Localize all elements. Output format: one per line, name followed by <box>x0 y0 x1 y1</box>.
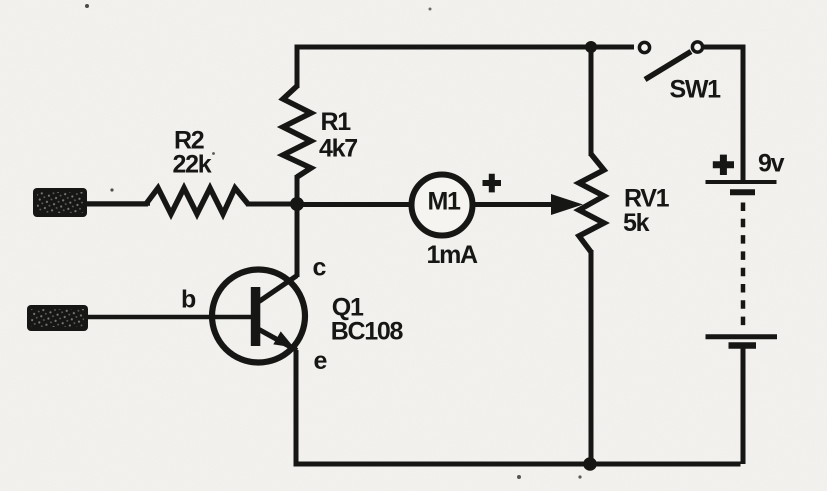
transistor Q1 emitter stroke <box>259 330 297 351</box>
svg-text:M1: M1 <box>428 188 462 216</box>
speck <box>212 152 215 155</box>
wire RV1 bottom lead <box>589 250 594 464</box>
transistor Q1 collector stroke <box>259 276 297 302</box>
svg-text:5k: 5k <box>623 209 650 237</box>
svg-text:R1: R1 <box>321 108 352 136</box>
transistor Q1 emitter arrowhead <box>273 331 294 347</box>
svg-text:9v: 9v <box>758 150 785 178</box>
switch SW1 lever <box>645 52 691 80</box>
battery B1 dashed link <box>741 203 746 330</box>
potentiometer RV1 <box>579 154 604 252</box>
probe terminal input 1 <box>33 188 87 217</box>
wire R1 bottom lead <box>295 175 300 206</box>
transistor Q1 base bar <box>251 287 260 346</box>
wire battery to bottom rail <box>741 348 746 464</box>
battery B1 cell2 negative plate <box>729 342 757 349</box>
meter M1 body <box>412 175 473 236</box>
node junction R1/R2/M1/collector <box>290 197 304 211</box>
resistor R1 <box>283 86 311 177</box>
svg-text:SW1: SW1 <box>670 76 722 104</box>
speck <box>110 188 113 191</box>
arrowhead wiper <box>551 194 583 215</box>
speck <box>85 4 89 8</box>
speck <box>578 475 581 478</box>
switch SW1 contact right <box>692 42 702 52</box>
svg-text:b: b <box>181 286 196 314</box>
switch SW1 contact left <box>639 42 649 52</box>
svg-text:BC108: BC108 <box>331 318 404 346</box>
wire top rail <box>297 47 634 88</box>
svg-text:4k7: 4k7 <box>319 135 357 163</box>
resistor R2 <box>146 188 248 214</box>
probe terminal input 2 <box>27 305 88 331</box>
wire R2 left lead <box>85 202 148 207</box>
plus sign battery polarity <box>713 155 734 175</box>
svg-text:e: e <box>314 347 328 375</box>
node junction bottom rail / RV1 <box>583 457 597 471</box>
svg-text:1mA: 1mA <box>427 241 479 269</box>
wire base lead <box>86 315 251 320</box>
wire switch to battery corner <box>704 47 743 180</box>
speck <box>429 8 432 11</box>
wire bottom rail <box>296 462 741 467</box>
wire R2 right lead <box>246 202 297 207</box>
battery B1 cell1 positive plate <box>706 180 777 184</box>
svg-text:22k: 22k <box>173 151 212 179</box>
battery B1 cell2 positive plate <box>706 334 778 339</box>
wire collector rail <box>295 202 300 277</box>
wire RV1 top lead <box>589 47 594 156</box>
wire emitter rail <box>294 350 299 467</box>
transistor Q1 body <box>212 270 305 363</box>
plus sign meter polarity <box>483 174 502 193</box>
battery B1 cell1 negative plate <box>730 189 755 195</box>
wire M1 arrow to RV1 wiper <box>473 202 556 207</box>
wire probe1 lead <box>85 201 150 206</box>
speck <box>517 475 521 479</box>
svg-text:c: c <box>313 254 327 282</box>
node junction top rail / RV1 <box>585 41 597 53</box>
wire M1 left lead <box>297 202 414 207</box>
